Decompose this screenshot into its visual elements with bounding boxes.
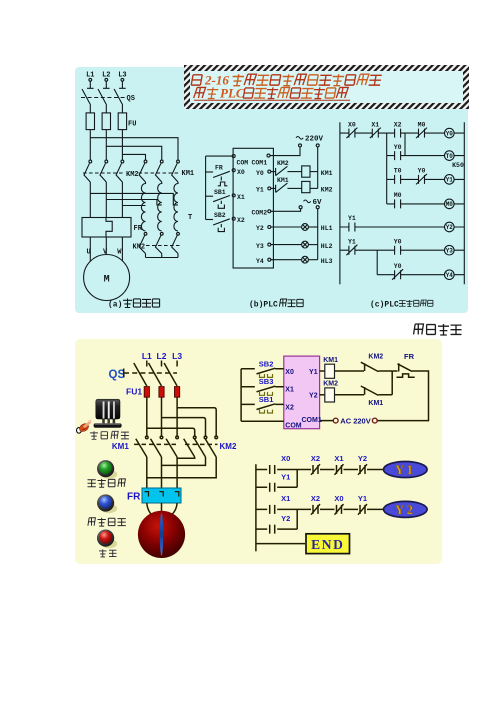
switch QS dashed link — [81, 97, 125, 99]
svg-text:(a): (a) — [108, 301, 122, 310]
contact KM2 NC — [271, 171, 276, 173]
svg-text:QS: QS — [109, 369, 126, 381]
svg-text:T0: T0 — [394, 168, 402, 175]
svg-text:END: END — [311, 537, 344, 552]
wire COM — [241, 420, 284, 422]
coil Y3 — [445, 245, 455, 255]
contact X2 NC — [311, 464, 320, 475]
node ~220V supply — [296, 137, 303, 140]
svg-text:X2: X2 — [311, 494, 320, 503]
contact Y1 NC — [346, 245, 357, 256]
END block — [306, 534, 350, 554]
svg-text:X2: X2 — [285, 404, 294, 411]
svg-text:AC 220V: AC 220V — [340, 416, 370, 425]
svg-text:M0: M0 — [394, 192, 402, 199]
caption (b) — [249, 299, 303, 310]
wire tap phase2 to winding2 — [106, 200, 161, 205]
svg-text:Y0: Y0 — [394, 263, 402, 270]
wire crossover bus phase2 to KM1 middle branch — [106, 146, 161, 160]
svg-text:(c)PLC: (c)PLC — [370, 301, 399, 310]
svg-text:HL1: HL1 — [321, 225, 333, 232]
svg-text:X0: X0 — [334, 494, 343, 503]
contact X1 NC — [335, 464, 344, 475]
svg-text:X0: X0 — [237, 169, 245, 176]
svg-text:Y1: Y1 — [256, 187, 264, 194]
svg-text:L2: L2 — [157, 351, 167, 361]
svg-text:X0: X0 — [281, 454, 290, 463]
contact Y2 NO — [270, 525, 275, 534]
contact X1 NC — [370, 128, 381, 139]
rung 3 wire — [387, 178, 465, 180]
svg-text:Y1: Y1 — [348, 215, 356, 222]
coil Y2 — [445, 222, 455, 232]
svg-text:X0: X0 — [285, 369, 294, 376]
rung 2 wire — [387, 155, 465, 157]
svg-text:KM1: KM1 — [277, 177, 289, 184]
wire star point bus — [146, 257, 179, 259]
svg-text:SB3: SB3 — [259, 377, 274, 386]
text 反向启动 — [88, 518, 126, 526]
wire input bus — [240, 369, 242, 421]
svg-text:FR: FR — [404, 352, 415, 361]
svg-text:Y2: Y2 — [256, 225, 264, 232]
svg-text:Y0: Y0 — [418, 168, 426, 175]
svg-text:HL2: HL2 — [321, 243, 333, 250]
contact X0 NO — [270, 465, 275, 474]
wire phase stubs — [147, 361, 177, 367]
wire input bus — [205, 156, 207, 219]
contact M0 NC — [416, 128, 427, 139]
svg-text:X1: X1 — [334, 454, 343, 463]
svg-text:220V: 220V — [305, 136, 324, 144]
output Y2 oval — [384, 501, 428, 517]
svg-text:QS: QS — [127, 95, 135, 103]
PLC box — [284, 356, 320, 429]
svg-text:Y1: Y1 — [395, 463, 415, 477]
contact Y1 NC rung2 — [358, 504, 367, 515]
contact FR input — [206, 171, 214, 173]
contact SB1 input — [206, 195, 214, 197]
button stop (red) — [101, 539, 117, 548]
coil KM1 — [302, 166, 310, 177]
wire 6V to COM2 — [271, 209, 301, 212]
coil Y4 — [445, 270, 455, 280]
power-switch icon — [94, 399, 122, 428]
svg-text:L3: L3 — [172, 351, 182, 361]
svg-text:X1: X1 — [285, 387, 294, 394]
switch QS blades — [134, 363, 177, 386]
svg-text:Y1: Y1 — [446, 177, 454, 184]
contact X0 NC rung2 — [335, 504, 344, 515]
cyan background — [75, 67, 468, 313]
ladder left rail — [339, 122, 341, 284]
node X2 — [232, 217, 235, 220]
svg-text:FR: FR — [127, 492, 141, 503]
svg-text:FR: FR — [215, 164, 223, 171]
svg-text:KM1: KM1 — [112, 442, 129, 451]
node Y0 — [268, 170, 271, 173]
coil Y1 — [445, 175, 455, 185]
fuse FU phase1 — [86, 113, 94, 130]
transformer T winding 3 — [174, 182, 178, 231]
node COM input — [206, 155, 234, 157]
svg-text:K50: K50 — [452, 162, 464, 169]
svg-text:Y2: Y2 — [281, 514, 290, 523]
title line 2: 采用PLC控制的接线图和梯形图 (underlined) — [194, 85, 350, 100]
svg-text:L1: L1 — [142, 351, 152, 361]
svg-text:KM1: KM1 — [321, 170, 333, 177]
contact Y2 NC — [358, 464, 367, 475]
node X1 — [232, 194, 235, 197]
rung 1 wire — [340, 132, 464, 134]
contact Y1 NO — [270, 483, 275, 492]
wire QS to fuses — [90, 105, 122, 113]
svg-text:Y4: Y4 — [446, 272, 454, 279]
svg-text:Y2: Y2 — [395, 503, 415, 517]
text 电源开关 — [90, 431, 129, 439]
wire L1 stub — [87, 81, 94, 88]
svg-text:FR: FR — [134, 225, 143, 233]
rung 2 wire — [256, 508, 384, 510]
rung 7 wire — [377, 274, 464, 276]
lamp HL3 — [271, 259, 302, 261]
rung 1 wire — [256, 469, 384, 471]
svg-text:KM2: KM2 — [220, 442, 237, 451]
contact X2 NC rung2 — [311, 504, 320, 515]
coil Y0 — [445, 128, 455, 138]
button start-forward (green) — [101, 470, 117, 479]
contact T0 NO — [395, 175, 401, 184]
wire tap phase3 to winding1 — [122, 205, 145, 207]
switch QS dashed link — [124, 372, 177, 374]
wire tap phase3 to KM2 branch — [177, 408, 216, 436]
transformer T winding 1 — [141, 182, 145, 231]
node COM1 output — [267, 154, 270, 157]
contactor KM2 contacts — [193, 436, 196, 439]
svg-text:X2: X2 — [237, 217, 245, 224]
wire KM2 crossover to phase2 — [162, 457, 206, 465]
caption (c) — [370, 300, 433, 310]
text 正向启动 — [88, 479, 126, 487]
svg-text:X1: X1 — [237, 194, 245, 201]
svg-text:Y3: Y3 — [256, 243, 264, 250]
svg-text:COM1: COM1 — [302, 417, 322, 424]
svg-text:M0: M0 — [446, 201, 454, 208]
contact Y0 NO — [395, 151, 401, 160]
wire KM2 crossover to phase1 — [147, 457, 216, 478]
svg-text:FU: FU — [128, 121, 136, 129]
svg-text:Y4: Y4 — [256, 258, 264, 265]
wire junction B — [404, 133, 406, 156]
fuse FU phase2 — [102, 113, 110, 130]
svg-text:KM2: KM2 — [321, 187, 333, 194]
PLC box (b) — [233, 148, 273, 268]
wire COM1 to 220V rail — [270, 147, 300, 156]
svg-text:KM2: KM2 — [133, 244, 146, 252]
svg-text:X1: X1 — [371, 121, 379, 128]
bottom animation figure (yellow) — [75, 339, 442, 564]
contact X0 NC — [346, 128, 357, 139]
node Y3 — [268, 243, 271, 246]
lamp HL2 — [271, 244, 302, 246]
svg-text:X0: X0 — [348, 121, 356, 128]
wire Y2 parallel branch — [256, 509, 297, 529]
svg-text:Y3: Y3 — [446, 247, 454, 254]
title box with hatched border — [184, 65, 469, 109]
AC 220V supply — [372, 418, 377, 423]
contact M0 NO — [395, 199, 401, 208]
svg-text:HL3: HL3 — [321, 258, 333, 265]
contact Y0 NO rung6 — [395, 246, 401, 255]
svg-text:Y2: Y2 — [358, 454, 367, 463]
output Y1 oval — [384, 462, 428, 478]
wire crossover bus phase3 to KM1 left branch — [122, 154, 145, 160]
svg-text:Y0: Y0 — [394, 238, 402, 245]
wire fuse outputs down — [90, 130, 122, 161]
lamp HL1 — [271, 226, 302, 228]
yellow background — [75, 339, 442, 564]
svg-text:Y0: Y0 — [394, 144, 402, 151]
fuse FU1 phase3 — [175, 387, 180, 398]
svg-text:Y2: Y2 — [446, 224, 454, 231]
svg-text:COM: COM — [285, 422, 302, 429]
button start-reverse (blue) — [101, 504, 117, 513]
svg-text:KM2: KM2 — [368, 353, 383, 360]
svg-text:COM1: COM1 — [252, 160, 268, 167]
contact Y0 NC — [416, 174, 427, 185]
svg-text:PLC: PLC — [220, 85, 245, 100]
motor body — [138, 511, 185, 558]
wire 6V rail — [317, 209, 319, 260]
contact SB2 input — [206, 219, 214, 221]
svg-text:KM2: KM2 — [277, 160, 289, 167]
text 停止 — [99, 549, 117, 557]
svg-text:KM2: KM2 — [323, 381, 338, 388]
node Y2 — [268, 226, 271, 229]
contact X1 NO — [270, 505, 275, 514]
wire branch A — [386, 133, 388, 204]
svg-text:T: T — [188, 214, 192, 222]
svg-text:Y0: Y0 — [256, 170, 264, 177]
rung 6 wire — [340, 249, 464, 251]
svg-text:M: M — [104, 275, 110, 286]
wire Y1 parallel branch — [256, 470, 297, 488]
coil T0 timer — [445, 151, 455, 161]
svg-text:T0: T0 — [446, 153, 454, 160]
contact Y0 NC rung7 — [392, 269, 403, 280]
title line 1: 图2-16自耦变压器降压起动控制电路 — [191, 73, 382, 88]
coil KM2 — [302, 181, 310, 192]
rung 5 wire — [340, 226, 464, 228]
wire crossover bus phase1 to KM1 right branch — [90, 138, 178, 160]
thermal relay FR box — [82, 218, 131, 238]
wire L2 stub — [103, 81, 110, 88]
wire tap phase2 to KM2 branch — [162, 418, 206, 436]
svg-text:KM1: KM1 — [182, 170, 195, 178]
switch QS blades — [82, 89, 123, 105]
contactor KM1 contacts — [146, 436, 149, 439]
fuse FU phase3 — [118, 113, 126, 130]
motor M — [84, 255, 130, 301]
fuse FU1 phase2 — [159, 387, 164, 398]
svg-text:Y2: Y2 — [309, 393, 318, 400]
svg-text:U: U — [87, 249, 91, 257]
rung 4 wire — [387, 203, 465, 205]
contactor KM1 main contacts (right set) — [144, 160, 147, 163]
svg-text:SB2: SB2 — [214, 212, 226, 219]
svg-text:KM1: KM1 — [323, 357, 338, 364]
wire junction to FR — [391, 371, 393, 395]
svg-text:Y1: Y1 — [358, 494, 367, 503]
svg-text:(b)PLC: (b)PLC — [249, 301, 278, 310]
coil M0 — [445, 199, 455, 209]
contact X2 NO — [395, 129, 401, 138]
svg-text:Y0: Y0 — [446, 130, 454, 137]
wire FR to motor terminals U V W — [90, 237, 122, 261]
svg-text:COM: COM — [237, 160, 249, 167]
svg-text:FU1: FU1 — [126, 387, 142, 397]
wire tap phase1 to KM2 branch — [147, 428, 195, 436]
wire KM1 to FR — [147, 457, 177, 488]
contact KM1 NC — [271, 187, 276, 189]
ladder right rail — [463, 122, 465, 284]
svg-text:Y1: Y1 — [309, 369, 318, 376]
motor shaft — [160, 513, 163, 556]
thermal relay FR box — [142, 488, 181, 503]
svg-text:X2: X2 — [394, 121, 402, 128]
wire FR to motor — [147, 503, 177, 517]
svg-text:Y1: Y1 — [281, 472, 290, 481]
switch QS hinge tick — [123, 369, 125, 378]
svg-text:SB2: SB2 — [259, 359, 274, 368]
node ~6V supply — [304, 200, 311, 203]
svg-text:X2: X2 — [311, 454, 320, 463]
fuse FU1 phase1 — [144, 387, 149, 398]
svg-text:KM2: KM2 — [126, 171, 139, 179]
transformer T winding 2 — [158, 182, 162, 231]
wire fuse outputs — [147, 397, 177, 436]
svg-text:KM1: KM1 — [368, 400, 383, 407]
node COM2 — [268, 210, 271, 213]
caption (a) — [108, 299, 160, 310]
node Y1 — [268, 187, 271, 190]
svg-text:SB1: SB1 — [214, 189, 226, 196]
svg-text:SB1: SB1 — [259, 395, 274, 404]
wire L3 stub — [119, 81, 126, 88]
svg-text:Y1: Y1 — [348, 238, 356, 245]
动画演示 text (pseudo-glyphs) — [410, 322, 464, 338]
contactor KM2 main contacts (left set) — [89, 160, 92, 163]
contact Y1 NO — [349, 223, 355, 232]
svg-text:X1: X1 — [281, 494, 290, 503]
wire KM2 set down to FR — [90, 182, 122, 218]
ladder left rail — [255, 464, 257, 551]
svg-text:COM2: COM2 — [252, 210, 268, 217]
wire branch C — [376, 250, 378, 275]
node X0 — [232, 169, 235, 172]
wire KM2 crossover to phase3 — [177, 457, 195, 458]
contactor KM2 star contacts (below transformer) — [144, 232, 147, 235]
END rung wire — [256, 543, 305, 545]
wire tap phase1 to winding3 — [90, 193, 178, 205]
node Y4 — [268, 258, 271, 261]
hand pointer — [77, 421, 91, 434]
svg-text:M0: M0 — [418, 121, 426, 128]
top circuit figure (cyan) — [75, 67, 468, 313]
